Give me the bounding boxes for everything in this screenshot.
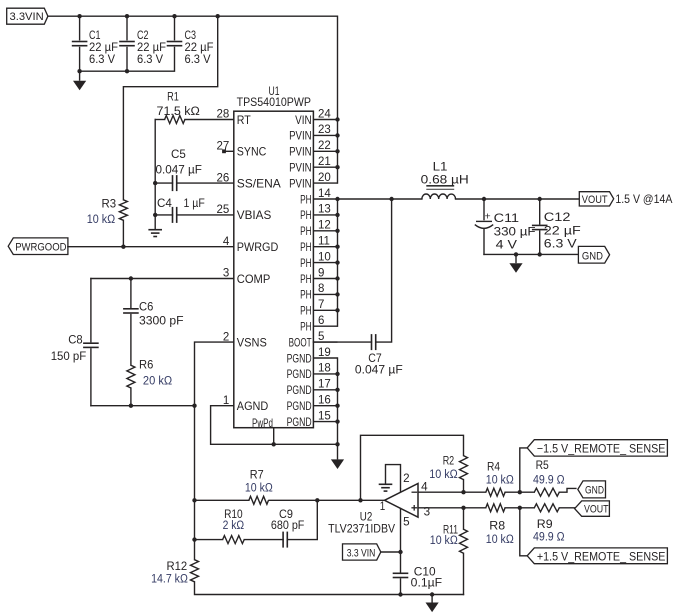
label C2 (137, 30, 166, 66)
svg-text:22 µF: 22 µF (185, 42, 214, 54)
wire C10 to ground rail (400, 579, 402, 595)
svg-text:GND: GND (585, 485, 604, 497)
svg-text:3.3VIN: 3.3VIN (10, 11, 44, 23)
resistor R6 (127, 365, 135, 388)
wire pin4 row to R4 (418, 491, 486, 493)
svg-text:PwPd: PwPd (252, 417, 273, 430)
junction R7-C9 branch (315, 498, 319, 502)
wire C9 up to R7 row (287, 500, 317, 539)
ground bottom rail (426, 595, 439, 613)
svg-text:22 µF: 22 µF (137, 42, 166, 54)
svg-text:20 kΩ: 20 kΩ (143, 376, 173, 388)
junction C10 ground (398, 592, 402, 596)
svg-text:6.3 V: 6.3 V (185, 54, 211, 66)
svg-text:21: 21 (318, 156, 331, 168)
svg-text:19: 19 (318, 347, 331, 359)
wire PH bus (337, 199, 339, 326)
net tag GND (remote sense) (578, 481, 606, 498)
wire C6 top leg (130, 279, 132, 308)
junction PH bus (335, 245, 339, 249)
svg-text:L1: L1 (433, 162, 448, 174)
label L1 (421, 162, 469, 187)
wire R6 bottom (130, 388, 132, 406)
svg-text:14.7 kΩ: 14.7 kΩ (151, 573, 188, 585)
resistor R5 (534, 488, 559, 496)
junction PVIN bus pin 21 (335, 165, 339, 169)
svg-text:10 kΩ: 10 kΩ (245, 483, 273, 495)
label R6 (139, 359, 173, 387)
svg-text:C1: C1 (89, 30, 101, 42)
junction PH bus (335, 229, 339, 233)
label C11 (485, 211, 536, 252)
ground op-amp pin 2 (IEC) (379, 484, 393, 491)
junction PVIN bus pin 23 (335, 133, 339, 137)
svg-text:BOOT: BOOT (289, 336, 312, 349)
wire R4 to R5 (505, 491, 534, 493)
inductor L1 (422, 186, 456, 199)
svg-text:PH: PH (300, 241, 312, 254)
junction rail-R7 (192, 498, 196, 502)
svg-text:VOUT: VOUT (582, 194, 608, 206)
svg-text:49.9 Ω: 49.9 Ω (533, 475, 565, 487)
svg-text:3300 pF: 3300 pF (139, 315, 184, 327)
capacitor C2 (119, 42, 135, 46)
svg-text:COMP: COMP (237, 273, 271, 286)
junction C11 top (482, 197, 486, 201)
svg-text:C5: C5 (171, 149, 186, 161)
label C4 (157, 198, 205, 210)
junction PH bus (335, 260, 339, 264)
svg-text:−1.5 V_REMOTE_ SENSE: −1.5 V_REMOTE_ SENSE (537, 441, 666, 455)
svg-text:PVIN: PVIN (289, 146, 312, 159)
wire input caps bottom rail (80, 48, 175, 72)
resistor R7 (249, 496, 269, 504)
capacitor C8 (83, 343, 99, 347)
junction PH bus (335, 308, 339, 312)
svg-text:AGND: AGND (237, 400, 269, 413)
wire 3.3VIN top rail to PVIN bus (48, 16, 338, 183)
ground output (509, 254, 522, 272)
resistor R4 (486, 488, 505, 496)
net tag VOUT (remote sense) (575, 501, 610, 516)
wire R8 to R9 (505, 507, 534, 509)
svg-text:6.3 V: 6.3 V (137, 54, 163, 66)
wire C1 top (79, 16, 81, 40)
svg-text:24: 24 (318, 108, 331, 120)
junction rail-C4 (153, 213, 157, 217)
wire C8 top leg (90, 279, 92, 342)
U1 left pin numbers (217, 109, 230, 407)
svg-text:150 pF: 150 pF (51, 351, 87, 363)
wire C12 bottom leg (539, 231, 541, 254)
svg-text:VIN: VIN (295, 114, 312, 127)
wire R2 bottom (463, 480, 465, 493)
junction rail-C5 (153, 181, 157, 185)
svg-text:R12: R12 (167, 561, 188, 573)
svg-text:+1.5 V_REMOTE_ SENSE: +1.5 V_REMOTE_ SENSE (537, 549, 666, 563)
label 1.5V at 14A (615, 192, 672, 206)
resistor R12 (191, 560, 199, 582)
junction feedback (358, 498, 362, 502)
no-connect stub pin 27 SYNC (222, 149, 234, 153)
label op-amp pin numbers (380, 473, 431, 529)
wire PwPd stem (273, 428, 275, 445)
net tag 3.3 VIN (op-amp) (343, 544, 381, 560)
label C8 (51, 335, 87, 363)
svg-text:9: 9 (318, 267, 324, 279)
svg-text:5: 5 (403, 517, 410, 529)
capacitor C12 (532, 225, 548, 229)
svg-text:C2: C2 (137, 30, 149, 42)
resistor R9 (534, 504, 559, 512)
svg-text:PGND: PGND (287, 352, 312, 365)
junction C1 bottom (77, 69, 81, 73)
ground input caps (73, 71, 86, 90)
svg-text:0.047 µF: 0.047 µF (156, 165, 202, 177)
svg-text:SS/ENA: SS/ENA (237, 177, 281, 190)
svg-text:TPS54010PWP: TPS54010PWP (237, 97, 312, 109)
capacitor C4 (173, 207, 177, 223)
junction R2 bottom (461, 490, 465, 494)
svg-text:14: 14 (318, 188, 331, 200)
svg-text:PH: PH (300, 257, 312, 270)
svg-text:PGND: PGND (287, 368, 312, 381)
wire op-amp output feedback loop (361, 435, 464, 500)
wire rail to R1 (155, 119, 164, 121)
svg-text:C3: C3 (185, 30, 197, 42)
svg-text:PGND: PGND (287, 416, 312, 429)
wire C5 to SS/ENA pin 26 (177, 182, 234, 184)
wire op-amp pin 2 to ground (386, 465, 401, 492)
junction R3-PWRGD (121, 245, 125, 249)
svg-text:5: 5 (318, 331, 324, 343)
svg-text:18: 18 (318, 363, 331, 375)
svg-text:PH: PH (300, 273, 312, 286)
resistor R3 (119, 200, 127, 221)
svg-text:PH: PH (300, 193, 312, 206)
svg-text:0.1µF: 0.1µF (411, 577, 442, 589)
label R4 (486, 461, 514, 486)
wire R11 bottom leg (463, 553, 465, 594)
junction PGND bus (335, 372, 339, 376)
wire PH pin 14 to L1 (338, 198, 422, 200)
junction R8-R9 remote sense (518, 506, 522, 510)
U1 left pin names (237, 114, 281, 413)
svg-text:49.9 Ω: 49.9 Ω (533, 532, 565, 544)
junction C12 top (538, 197, 542, 201)
svg-text:10 kΩ: 10 kΩ (429, 469, 458, 481)
svg-text:13: 13 (318, 204, 331, 216)
resistor R2 (460, 456, 468, 480)
svg-text:R7: R7 (250, 470, 264, 482)
svg-text:PWRGOOD: PWRGOOD (15, 241, 66, 253)
U1 right pin names (287, 114, 312, 429)
label C1 (89, 30, 118, 66)
junction output ground (514, 252, 518, 256)
capacitor C5 (173, 175, 177, 191)
wire C2 top (126, 16, 128, 40)
wire C11 top leg (483, 199, 485, 220)
junction PH bus (335, 213, 339, 217)
svg-text:R8: R8 (489, 520, 505, 532)
wire C12 top leg (539, 199, 541, 224)
wire BOOT pin 5 to C7 (313, 341, 371, 343)
svg-text:12: 12 (318, 220, 331, 232)
junction PH-BOOT cap branch (389, 197, 393, 201)
wire C1 bottom (79, 48, 81, 72)
svg-text:1.5 V @14A: 1.5 V @14A (615, 192, 672, 206)
svg-text:11: 11 (318, 236, 330, 248)
svg-text:R3: R3 (102, 198, 117, 210)
wire to -1.5V remote sense tag (520, 448, 527, 492)
svg-text:15: 15 (318, 410, 331, 422)
net tag GND (output) (578, 246, 609, 263)
label C6 (139, 301, 184, 327)
svg-text:22 µF: 22 µF (544, 226, 581, 238)
svg-text:0.68 µH: 0.68 µH (421, 174, 469, 186)
wire C11 bottom leg (483, 229, 485, 255)
junction PGND-AGND ground node (335, 442, 339, 446)
wire C8 bottom leg (90, 349, 92, 406)
svg-text:C7: C7 (368, 353, 381, 365)
junction PVIN bus pin 22 (335, 149, 339, 153)
svg-text:22: 22 (318, 140, 331, 152)
junction rail-R3 feed (216, 14, 220, 18)
wire L1 to VOUT tag (456, 198, 580, 200)
op IC U1 TPS54010PWP body (234, 111, 314, 428)
svg-text:PH: PH (300, 225, 312, 238)
junction C12 bottom (538, 252, 542, 256)
junction PH bus (335, 292, 339, 296)
U1 PwPd pad name (252, 417, 273, 430)
svg-text:2 kΩ: 2 kΩ (223, 520, 245, 532)
svg-text:VBIAS: VBIAS (237, 209, 272, 222)
svg-text:PVIN: PVIN (289, 177, 312, 190)
svg-text:2: 2 (403, 473, 410, 485)
junction C2 bottom (125, 69, 129, 73)
resistor R8 (486, 504, 505, 512)
label R8 (486, 520, 514, 546)
wire R1-C5-C4 ground rail (154, 120, 156, 230)
svg-text:SYNC: SYNC (237, 146, 266, 159)
junction rail-R10 (192, 537, 196, 541)
junction R4-R5 remote sense (518, 490, 522, 494)
svg-text:10 kΩ: 10 kΩ (486, 534, 514, 546)
junction PGND bus (335, 404, 339, 408)
svg-text:PH: PH (300, 209, 312, 222)
wire pin3 row to R8 (418, 507, 486, 509)
svg-text:PWRGD: PWRGD (237, 241, 278, 254)
label U1 (237, 86, 312, 109)
label C12 (544, 212, 581, 251)
svg-text:C12: C12 (544, 212, 571, 224)
capacitor C6 (123, 309, 139, 313)
capacitor C1 (72, 42, 88, 46)
junction PGND bus (335, 419, 339, 423)
svg-text:R4: R4 (487, 461, 501, 473)
label U2 (328, 511, 395, 535)
net tag -1.5 V_REMOTE_SENSE (527, 440, 667, 456)
wire top rail to R3 (123, 16, 217, 200)
label C10 (411, 567, 442, 590)
wire COMP pin 3 (91, 278, 234, 280)
svg-text:R5: R5 (536, 460, 549, 472)
svg-text:10: 10 (318, 251, 331, 263)
net tag +1.5 V_REMOTE_SENSE (527, 548, 667, 564)
junction PGND bus (335, 388, 339, 392)
svg-text:PVIN: PVIN (289, 162, 312, 175)
svg-text:6.3 V: 6.3 V (89, 54, 115, 66)
svg-text:10 kΩ: 10 kΩ (486, 475, 514, 487)
label R3 (87, 198, 116, 226)
wire rail to R10 (195, 539, 223, 541)
svg-text:C4: C4 (157, 198, 172, 210)
wire comp network bottom row (91, 405, 195, 407)
wire C3 top (174, 16, 176, 40)
label R7 (245, 470, 273, 495)
wire R10 to C9 (244, 539, 283, 541)
capacitor C10 (393, 573, 409, 577)
svg-text:RT: RT (237, 114, 251, 127)
wire R7 to op-amp output (269, 499, 385, 501)
svg-text:R2: R2 (443, 455, 455, 467)
svg-text:0.047 µF: 0.047 µF (355, 365, 403, 377)
wire PGND bus (337, 358, 339, 444)
junction ground arrow (430, 592, 434, 596)
svg-text:8: 8 (318, 283, 324, 295)
svg-text:23: 23 (318, 124, 331, 136)
capacitor C3 (167, 42, 183, 46)
wire PWRGOOD to pin 4 (68, 246, 234, 248)
wire to +1.5V remote sense tag (520, 508, 527, 556)
wire bottom ground rail (195, 582, 464, 595)
capacitor C9 (283, 532, 287, 548)
label C3 (185, 30, 214, 66)
wire rail to C5 (155, 182, 172, 184)
junction PwPd stem (272, 442, 276, 446)
label C9 (271, 509, 305, 532)
junction R11 top (461, 506, 465, 510)
junction rail-C2 (125, 14, 129, 18)
svg-text:C6: C6 (139, 301, 153, 313)
label R10 (223, 509, 245, 532)
svg-text:R6: R6 (139, 359, 153, 371)
U1 right pin stubs (313, 120, 337, 422)
svg-text:1 µF: 1 µF (184, 198, 205, 210)
svg-text:4 V: 4 V (496, 240, 518, 252)
junction PH bus pin 14 (335, 197, 339, 201)
svg-text:C11: C11 (494, 213, 519, 225)
junction 3.3VIN-pin5 (398, 550, 402, 554)
wire output ground rail (484, 253, 578, 255)
ground analog (IEC) under C4 (148, 230, 162, 237)
capacitor C7 (372, 334, 376, 350)
wire C6 to R6 (130, 315, 132, 366)
wire R5 to GND tag (559, 488, 576, 492)
junction rail-C3 (172, 14, 176, 18)
resistor R1 (165, 116, 185, 124)
op-amp U2 triangle (385, 484, 419, 518)
wire rail to R7 (195, 499, 249, 501)
svg-text:10 kΩ: 10 kΩ (87, 214, 116, 226)
label R9 (533, 519, 565, 543)
net tag VOUT (output) (579, 192, 613, 207)
svg-text:PH: PH (300, 289, 312, 302)
svg-text:330 µF: 330 µF (494, 227, 536, 239)
junction COMP-C6 (129, 276, 133, 280)
svg-text:3.3 VIN: 3.3 VIN (347, 547, 376, 559)
wire C4 to VBIAS pin 25 (177, 214, 234, 216)
svg-text:6.3 V: 6.3 V (544, 239, 577, 251)
svg-text:680 pF: 680 pF (271, 520, 305, 532)
svg-text:22 µF: 22 µF (89, 42, 118, 54)
svg-text:C8: C8 (68, 335, 82, 347)
svg-text:GND: GND (582, 250, 603, 262)
wire 3.3VIN tag to pin5 node (381, 551, 401, 553)
junction comp network to VSNS rail (192, 404, 196, 408)
svg-text:71.5 kΩ: 71.5 kΩ (157, 106, 201, 118)
wire AGND pin 1 to ground node (211, 406, 338, 445)
wire C2 bottom (126, 48, 128, 72)
wire rail to C4 (155, 214, 172, 216)
wire R9 to VOUT tag (559, 507, 574, 509)
net tag 3.3VIN (7, 8, 48, 24)
svg-text:PH: PH (300, 305, 312, 318)
svg-text:PGND: PGND (287, 400, 312, 413)
svg-text:20: 20 (318, 172, 331, 184)
svg-text:R9: R9 (537, 519, 553, 531)
svg-text:+: + (485, 211, 491, 223)
net tag PWRGOOD (8, 238, 68, 255)
svg-text:1: 1 (380, 501, 386, 513)
resistor R11 (460, 529, 468, 553)
svg-text:R1: R1 (167, 91, 179, 103)
svg-text:VOUT: VOUT (584, 503, 609, 515)
label R12 (151, 561, 188, 586)
junction rail-C1 (77, 14, 81, 18)
label R5 (533, 460, 565, 487)
wire R11 top leg (463, 508, 465, 529)
label R11 (430, 524, 458, 547)
resistor R10 (223, 536, 245, 544)
wire R1 to RT pin 28 (185, 119, 234, 121)
wire op-amp pin 5 down to C10 (400, 509, 402, 572)
svg-text:7: 7 (318, 299, 324, 311)
ground PGND (331, 444, 344, 469)
svg-text:6: 6 (318, 315, 324, 327)
wire C7 to PH node (376, 199, 392, 342)
svg-text:17: 17 (318, 379, 331, 391)
label R2 (429, 455, 458, 481)
svg-text:PH: PH (300, 321, 312, 334)
junction PH bus (335, 276, 339, 280)
label R1 (157, 91, 201, 118)
svg-text:10 kΩ: 10 kΩ (430, 535, 458, 547)
svg-text:PVIN: PVIN (289, 130, 312, 143)
junction PVIN bus pin 24 (335, 117, 339, 121)
capacitor C11 (polarized) (475, 221, 493, 228)
svg-text:TLV2371IDBV: TLV2371IDBV (328, 523, 395, 535)
svg-text:PGND: PGND (287, 384, 312, 397)
U1 right pin numbers (318, 108, 331, 422)
svg-text:16: 16 (318, 395, 331, 407)
wire VSNS pin 2 down left rail (195, 342, 234, 560)
label C7 (355, 353, 403, 377)
label C5 (156, 149, 202, 177)
wire R3 to PWRGD (122, 220, 124, 246)
junction R6 bottom (129, 404, 133, 408)
svg-text:VSNS: VSNS (237, 336, 267, 349)
